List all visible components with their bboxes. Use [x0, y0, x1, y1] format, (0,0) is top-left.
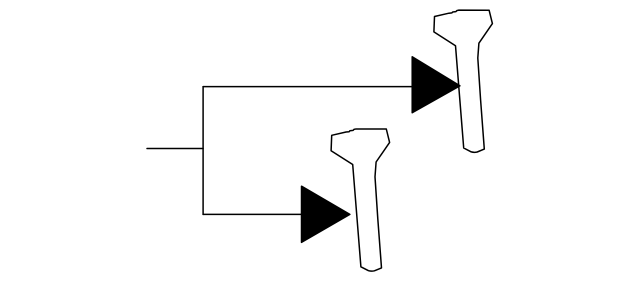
- component X2 (bottom hand-drawn outline): [331, 129, 390, 271]
- wire: input stub: [147, 148, 203, 150]
- wire: vertical branch: [202, 87, 204, 215]
- wire: top branch horizontal: [203, 86, 412, 88]
- component X1 (top hand-drawn outline): [434, 10, 493, 152]
- buffer U2 (bottom filled triangle): [302, 186, 350, 242]
- wire: bottom branch horizontal: [203, 213, 301, 215]
- buffer U1 (top filled triangle): [412, 57, 460, 113]
